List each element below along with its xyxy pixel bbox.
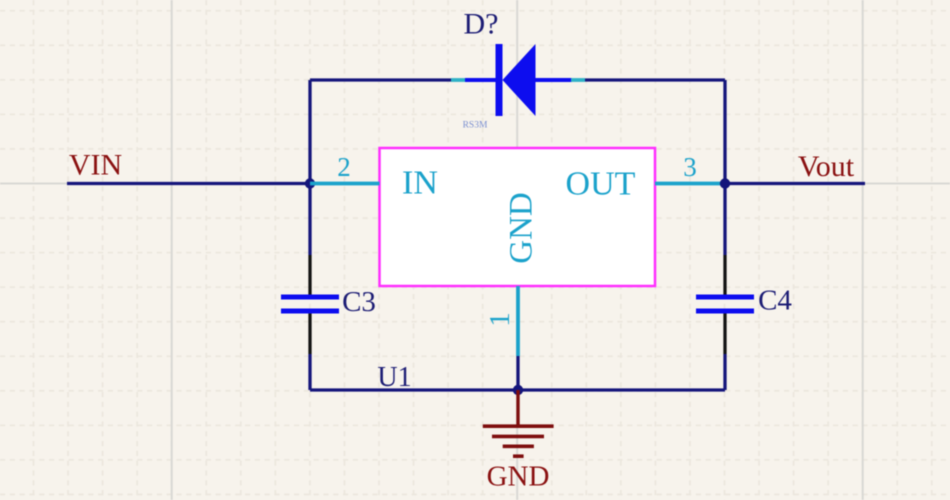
diode D? cathode bar (496, 44, 503, 116)
wire C3 to bottom rail (308, 354, 311, 390)
svg-text:GND: GND (504, 192, 540, 264)
wire node A down to C3 (308, 184, 311, 256)
ground symbol bar 3 (503, 444, 534, 448)
pin 3 wire (OUT) (655, 182, 725, 186)
diode D? right lead (536, 78, 573, 82)
pin 2 wire (IN) (310, 182, 380, 186)
pin 1 wire (GND) (516, 286, 520, 356)
diode D? triangle (anode) (503, 44, 536, 116)
wire C4 to bottom rail (723, 354, 726, 390)
wire top rail left segment (310, 78, 451, 81)
wire VIN net horizontal (67, 182, 310, 185)
svg-text:2: 2 (337, 152, 351, 182)
svg-text:1: 1 (484, 312, 516, 327)
ground symbol bar 4 (513, 454, 524, 458)
capacitor C3 top lead (308, 255, 311, 295)
capacitor C4 top lead (723, 255, 726, 295)
ground symbol bar 2 (492, 435, 544, 439)
wire bottom rail (310, 388, 725, 391)
svg-text:C3: C3 (342, 286, 376, 318)
capacitor C4 bottom lead (723, 314, 726, 355)
svg-text:IN: IN (402, 165, 438, 202)
svg-text:Vout: Vout (798, 150, 855, 183)
ground symbol stem (516, 390, 519, 425)
diode D? pin 1 tip (right) (571, 78, 585, 82)
svg-text:D?: D? (464, 8, 499, 41)
capacitor C3 bottom plate (281, 309, 339, 314)
diode D? pin 2 tip (left) (451, 78, 466, 82)
svg-text:GND: GND (487, 461, 550, 493)
capacitor C3 top plate (281, 295, 339, 300)
wire pin 1 to ground node (516, 356, 519, 390)
capacitor C3 bottom lead (308, 314, 311, 355)
capacitor C4 top plate (696, 295, 754, 300)
svg-text:RS3M: RS3M (463, 121, 488, 131)
IC U1 body box (380, 148, 656, 286)
svg-text:3: 3 (683, 152, 697, 182)
capacitor C4 bottom plate (696, 309, 754, 314)
diode D? left lead (465, 78, 496, 82)
svg-text:U1: U1 (377, 362, 411, 393)
wire top rail right segment (585, 78, 725, 81)
junction node B (720, 178, 730, 188)
junction node A (305, 178, 315, 188)
ground symbol bar 1 (483, 424, 554, 428)
wire right vertical (top rail down to node B) (723, 80, 726, 184)
wire Vout net (725, 182, 865, 185)
wire left vertical (node A up to top rail) (308, 80, 311, 184)
svg-text:OUT: OUT (566, 166, 636, 203)
junction ground node (513, 385, 523, 395)
svg-text:VIN: VIN (69, 149, 122, 182)
svg-text:C4: C4 (758, 285, 792, 317)
wire node B down to C4 (723, 184, 726, 256)
